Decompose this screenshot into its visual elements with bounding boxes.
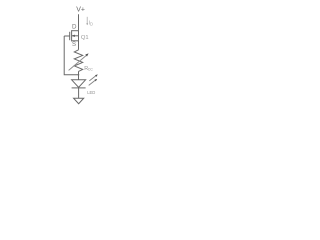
bulk arrowhead (72, 35, 75, 37)
transistor Q1 (64, 30, 78, 41)
LED light arrow 1 (89, 76, 95, 81)
bulk bar (72, 35, 79, 37)
junction dot (78, 74, 80, 76)
wire V+ to drain (78, 14, 80, 31)
wire LED to ground (78, 88, 80, 98)
drain bar (72, 30, 79, 32)
wire resistor to LED (78, 71, 80, 79)
svg-text:D: D (72, 23, 77, 30)
source bar (72, 40, 79, 42)
wire source to resistor (78, 41, 80, 50)
variable resistor arrow (69, 56, 87, 71)
ground (74, 98, 84, 104)
gate plate (69, 32, 71, 40)
LED light arrow 2 (89, 80, 95, 85)
right vertical D-S (78, 31, 80, 41)
svg-text:S: S (72, 42, 76, 48)
resistor RCC zigzag (74, 50, 82, 72)
svg-text:Q1: Q1 (81, 35, 89, 41)
LED diode triangle (72, 80, 86, 88)
gate lead (64, 35, 70, 37)
svg-text:CC: CC (88, 68, 94, 72)
svg-text:V+: V+ (76, 7, 85, 14)
gate feedback wire (64, 36, 78, 75)
LED cathode bar (72, 87, 86, 89)
channel line (71, 30, 73, 41)
svg-text:D: D (90, 22, 93, 27)
current arrow ID (86, 17, 88, 24)
svg-text:LED: LED (87, 90, 95, 95)
